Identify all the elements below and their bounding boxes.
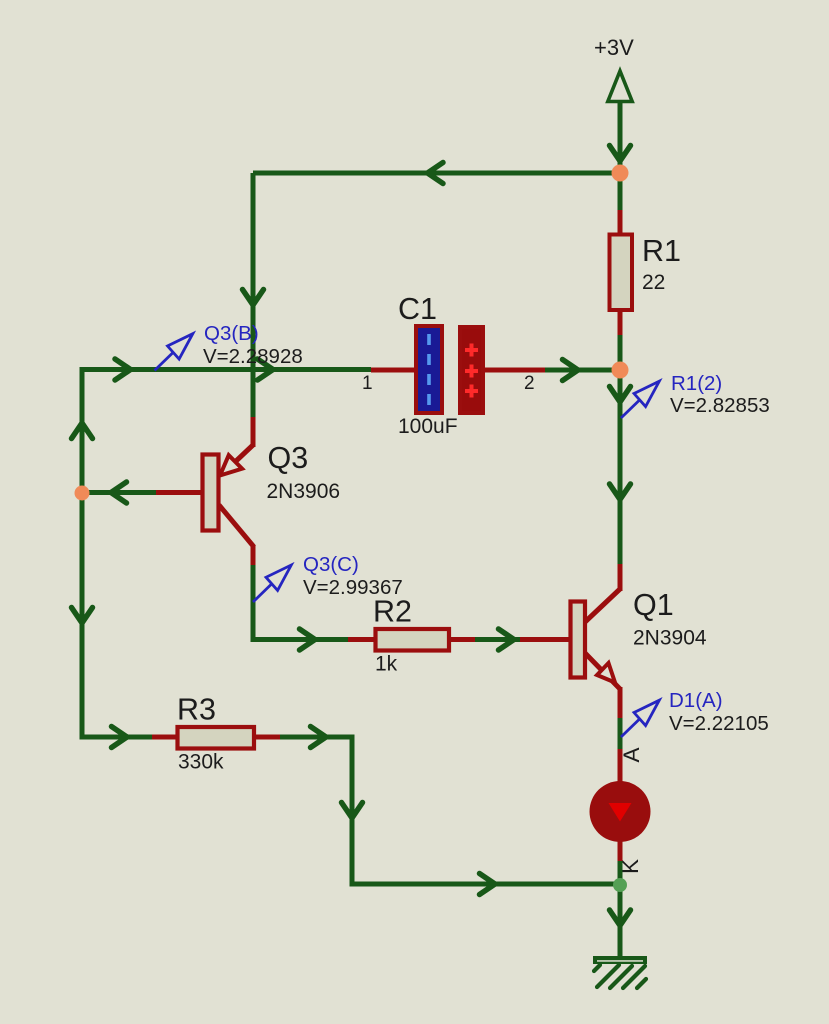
svg-text:330k: 330k xyxy=(178,751,224,774)
svg-text:1: 1 xyxy=(362,373,373,394)
svg-text:V=2.82853: V=2.82853 xyxy=(670,394,770,417)
wire VCC horizontal to left xyxy=(253,163,616,184)
svg-text:2N3906: 2N3906 xyxy=(267,480,341,503)
probe Q3(C) xyxy=(253,565,291,602)
wire node K to ground xyxy=(610,885,631,957)
wire Q3 collector down to R2 xyxy=(251,565,350,650)
svg-text:C1: C1 xyxy=(398,292,437,326)
wire C1 pin2 to node R1(2) xyxy=(545,360,620,381)
ground xyxy=(593,956,647,988)
junction VCC (orange) xyxy=(612,165,629,182)
probe R1(2) xyxy=(621,381,659,418)
svg-text:Q3: Q3 xyxy=(268,441,309,475)
wire left branch vertical x=253 xyxy=(243,173,264,370)
svg-text:+3V: +3V xyxy=(594,35,634,60)
resistor R2 xyxy=(348,629,476,651)
wire top horizontal rail y=370 (left part) xyxy=(82,359,371,380)
transistor Q1 2N3904 xyxy=(520,563,620,719)
svg-text:100uF: 100uF xyxy=(398,415,458,438)
svg-text:R1(2): R1(2) xyxy=(671,372,722,395)
svg-text:A: A xyxy=(619,747,644,762)
junction R1(2) (orange) xyxy=(612,362,629,379)
svg-text:V=2.99367: V=2.99367 xyxy=(303,576,403,599)
svg-text:Q1: Q1 xyxy=(633,588,674,622)
wire left rail vertical x=82 xyxy=(72,367,93,740)
LED D1 xyxy=(590,749,651,862)
svg-text:2N3904: 2N3904 xyxy=(633,627,707,650)
svg-text:V=2.28928: V=2.28928 xyxy=(203,345,303,368)
wire node R1(2) down to Q1 collector xyxy=(610,370,631,564)
power terminal +3V xyxy=(594,35,634,102)
resistor R1 xyxy=(610,173,633,370)
wire R3 to node K xyxy=(280,727,620,895)
wire Q1 emitter to D1 anode xyxy=(618,718,623,750)
junction Q3 base node (orange) xyxy=(75,486,90,501)
svg-text:2: 2 xyxy=(524,373,535,394)
svg-text:1k: 1k xyxy=(375,653,398,676)
svg-text:D1(A): D1(A) xyxy=(669,689,723,712)
junction node K (green) xyxy=(613,878,627,892)
svg-text:Q3(C): Q3(C) xyxy=(303,553,359,576)
wire D1 cathode to node K xyxy=(618,861,623,880)
probe Q3(B) xyxy=(155,334,193,371)
probe D1(A) xyxy=(621,700,659,737)
capacitor C1 xyxy=(371,326,546,413)
resistor R3 xyxy=(82,727,281,749)
wire Q3 base to left rail xyxy=(82,482,156,503)
svg-text:R1: R1 xyxy=(642,234,681,268)
transistor Q3 2N3906 xyxy=(155,416,254,566)
svg-text:R2: R2 xyxy=(373,595,412,629)
wire Q3 emitter to rail xyxy=(251,368,256,417)
svg-text:R3: R3 xyxy=(177,693,216,727)
wire +3V to node VCC xyxy=(610,100,631,170)
svg-text:Q3(B): Q3(B) xyxy=(204,322,259,345)
svg-text:V=2.22105: V=2.22105 xyxy=(669,712,769,735)
svg-text:22: 22 xyxy=(642,271,665,294)
wire R2 to Q1 base xyxy=(475,629,521,650)
